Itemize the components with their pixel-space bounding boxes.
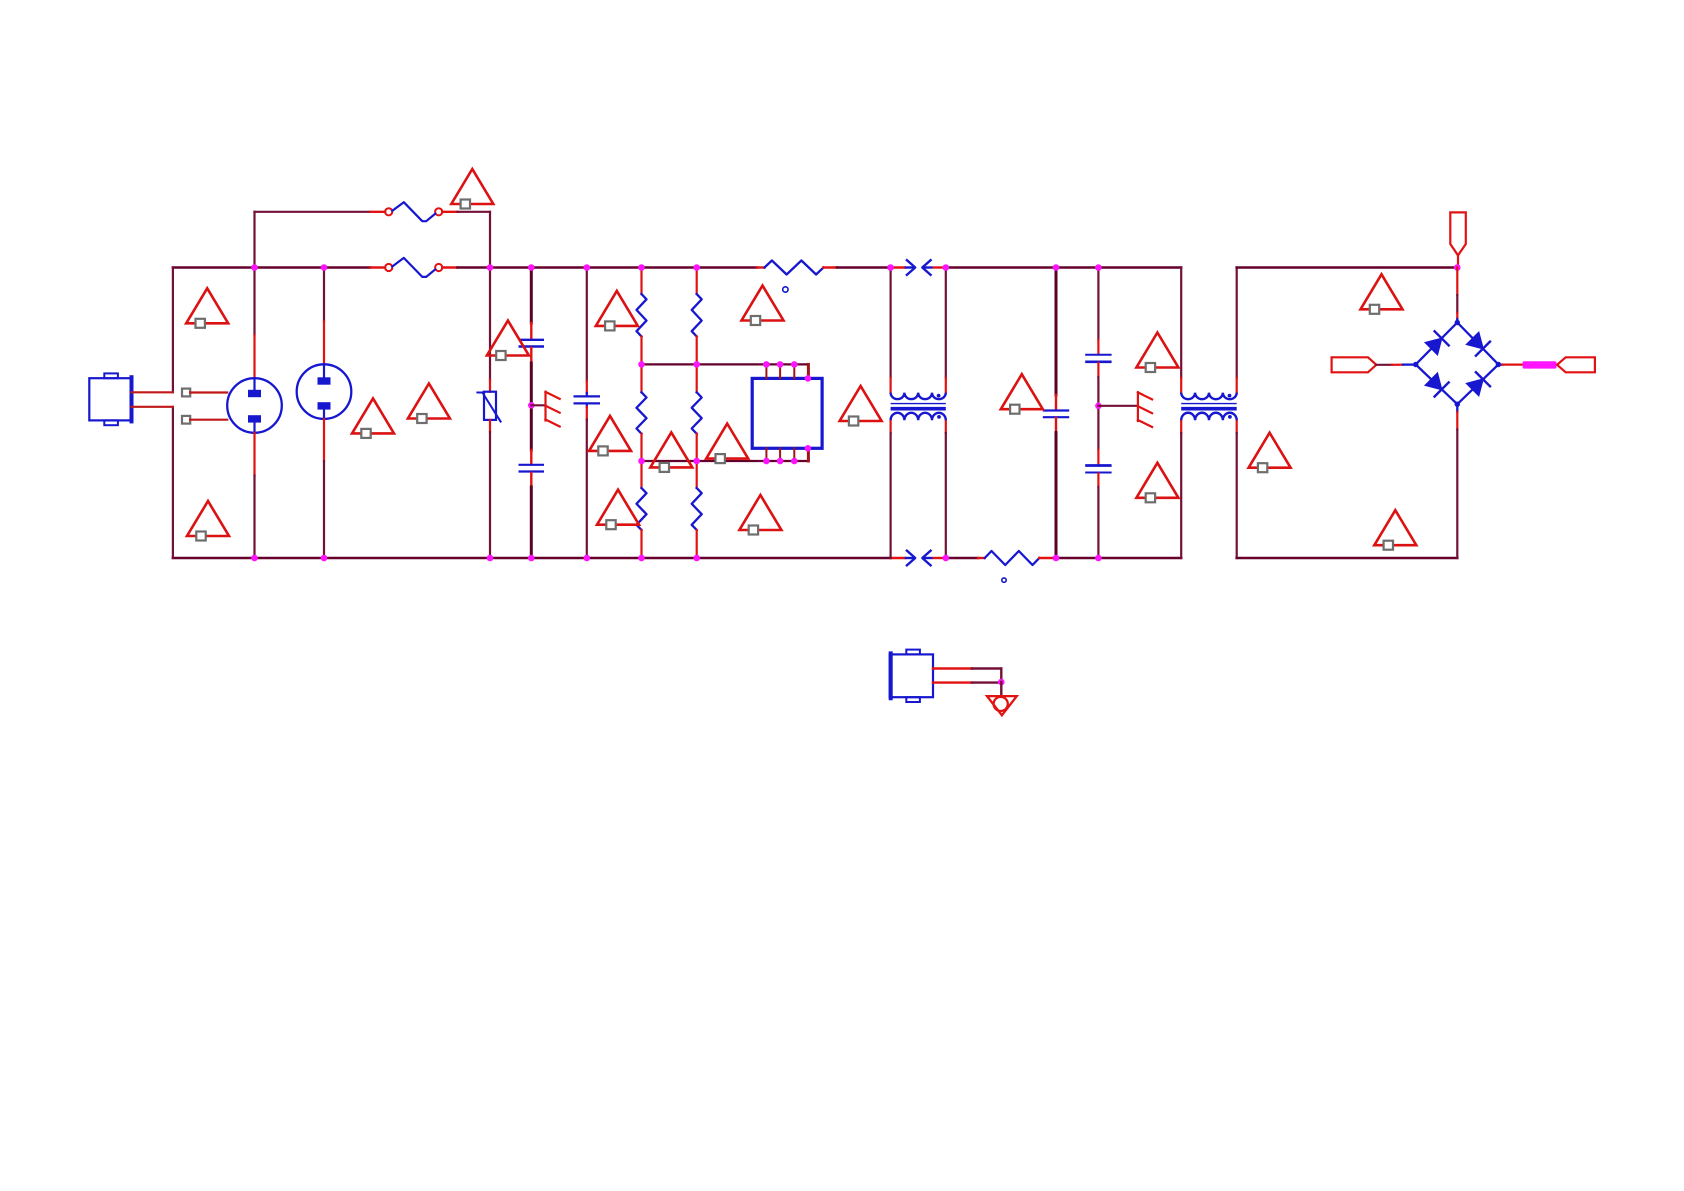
capacitor CX1 xyxy=(519,340,545,347)
warning symbol W13 xyxy=(840,386,882,426)
wire right box bottom bus y=558 xyxy=(1237,557,1458,560)
resistor R5 horizontal on top bus xyxy=(765,261,824,275)
wire red lead T2 right leg upper xyxy=(1236,378,1238,393)
wire bottom bus resistor R6 to T2 left leg corner xyxy=(1054,557,1181,560)
pin marker square upper near J1 xyxy=(182,389,190,397)
wire red lead top of R1b xyxy=(640,364,642,392)
pin 1 of U1 top xyxy=(765,364,767,378)
wire red lead bottom of R2c xyxy=(696,530,698,558)
wire red lead above C4 xyxy=(1097,340,1099,354)
wire red lead out of bridge right node xyxy=(1503,364,1523,366)
wire column x=324 lower segment xyxy=(323,461,325,558)
wire top bus y=267.5 from T1 right leg to T2 left leg corner xyxy=(946,266,1181,269)
wire column x=1056 top segment xyxy=(1055,268,1058,396)
wire red lead above LA2 xyxy=(323,321,325,364)
wire right box top bus y=267.5 xyxy=(1237,266,1458,269)
wire left edge lower segment x=173 xyxy=(172,407,174,558)
wire red lead bridge bottom xyxy=(1456,412,1458,430)
wire red lead below LA1 xyxy=(253,433,255,476)
wire red lead bottom of R2b xyxy=(696,434,698,461)
wire top bus red lead out of fuse F2 xyxy=(442,266,457,268)
wire pin marker to arrester LA1 lower y=419.7 xyxy=(190,419,227,421)
wire column x=1098.4 top segment xyxy=(1097,268,1099,341)
connector J1 AC inlet xyxy=(89,373,131,425)
wire J2 pin1 maroon segment y=668.5 xyxy=(972,667,1001,669)
wire corner down to junction x=1001.3 xyxy=(1000,669,1002,683)
wire fuse branch horizontal right part y=211.8 xyxy=(458,211,491,213)
fuse F1 on bypass branch xyxy=(385,202,442,221)
wire junction to earth symbol xyxy=(1000,682,1002,696)
pin 3 of U1 top xyxy=(793,364,795,378)
wire red lead top of R2c xyxy=(696,461,698,488)
diode D3 left-to-bottom xyxy=(1425,373,1448,396)
wire column x=490 below RV1 xyxy=(489,432,491,558)
wire column x=1056 bottom segment xyxy=(1055,433,1058,559)
wire J1 pin2 to left edge y=406.8 xyxy=(132,406,173,408)
wire red lead bottom of R1b xyxy=(640,434,642,461)
resistor R2b xyxy=(692,392,702,433)
wire column x=586.8 bottom segment xyxy=(586,420,588,559)
pin 2 of U1 top xyxy=(779,364,781,378)
wire red lead below C3 xyxy=(1055,418,1057,433)
wire flag to bridge left node xyxy=(1376,364,1392,366)
diode D2 top-to-right xyxy=(1467,332,1490,355)
wire flag to top bus junction xyxy=(1457,255,1459,267)
warning symbol W6 xyxy=(408,384,450,424)
wire T2 left leg lower x=1181.2 xyxy=(1180,433,1182,558)
flag connector right output xyxy=(1557,357,1595,372)
chassis ground symbol 1 xyxy=(546,392,560,427)
wire J1 pin1 to left edge y=392.3 xyxy=(132,391,173,393)
warning symbol W19 xyxy=(1249,433,1291,473)
arrow connection left-pointing top bus xyxy=(922,260,933,275)
wire red lead right of resistor R6 xyxy=(1039,557,1054,559)
resistor R1a xyxy=(637,294,647,337)
wire column x=586.8 top segment xyxy=(586,268,588,382)
wire red lead below C4 xyxy=(1097,363,1099,377)
wire blue stub bridge bottom xyxy=(1456,404,1458,412)
wire red lead above CX1 xyxy=(530,323,532,339)
connector J2 earth terminal xyxy=(890,650,933,702)
wire red lead top of R1a x=641.5 xyxy=(640,268,642,295)
wire red lead T2 right leg lower xyxy=(1236,420,1238,433)
wire red lead below CX2 xyxy=(530,473,532,487)
wire red lead below RV1 xyxy=(489,420,491,432)
wire column x=531.3 bottom segment xyxy=(530,487,533,558)
warning symbol W5 xyxy=(352,398,394,438)
capacitor CX2 xyxy=(519,465,545,472)
wire red lead above C5 xyxy=(1097,450,1099,465)
warning symbol W17 xyxy=(1136,463,1178,503)
wire red lead bottom of R2a xyxy=(696,337,698,365)
flag connector left AC-in xyxy=(1332,357,1377,372)
wire J2 pin2 maroon segment y=682.6 xyxy=(972,681,1001,683)
warning symbol W4 xyxy=(487,321,529,361)
wire column x=254.5 lower segment xyxy=(253,476,255,559)
wire red lead into bridge left node xyxy=(1392,364,1403,366)
protective earth symbol xyxy=(987,696,1017,715)
wire horizontal y=460.7 to IC bottom pins xyxy=(642,460,809,462)
junction dot chassis tap x=1098.4 xyxy=(1095,403,1102,410)
wire red stub junction to right-arrow top xyxy=(891,266,905,268)
wire J2 pin1 red segment y=668.5 xyxy=(933,667,972,669)
transformer T2 output choke xyxy=(1181,393,1237,421)
diode D4 bottom-to-right xyxy=(1467,372,1490,395)
wire fuse branch horizontal left part y=211.8 xyxy=(255,211,371,213)
fuse F2 on main line xyxy=(385,258,442,277)
wire column x=324 upper segment xyxy=(323,268,325,322)
wire column x=531.3 middle segment xyxy=(530,363,533,450)
arrow connection left-pointing bottom bus xyxy=(922,551,933,566)
wire top bus y=267.5 resistor R5 to T1 left leg junction xyxy=(837,266,891,269)
wire red lead T1 left leg upper xyxy=(889,378,891,393)
wire T1 left leg upper x=890.6 xyxy=(889,268,891,379)
wire red stub left-arrow to T1 right leg junction bottom xyxy=(934,557,946,559)
warning symbol W1 xyxy=(186,288,228,328)
wire horizontal y=364.4 to IC top pins xyxy=(642,363,809,365)
warning symbol W11 xyxy=(706,424,748,464)
wire red lead top of R2b xyxy=(696,364,698,392)
capacitor C4 xyxy=(1085,355,1111,362)
wire red lead below CX1 xyxy=(530,348,532,363)
warning symbol W9 xyxy=(597,490,639,530)
wire red stub T1 left leg to right-arrow bottom xyxy=(891,557,905,559)
wire top bus red lead into fuse F2 xyxy=(371,266,386,268)
transformer T1 common-mode choke xyxy=(891,393,946,421)
capacitor C3 xyxy=(1043,411,1069,418)
pin 7 of U1 bottom xyxy=(793,448,795,461)
resistor R1b xyxy=(637,392,647,433)
junction dot chassis tap x=531.3 xyxy=(528,402,535,409)
wire blue stub bridge right node xyxy=(1498,363,1502,365)
capacitor C5 xyxy=(1085,466,1111,473)
pin 5 of U1 bottom xyxy=(765,448,767,461)
arrow connection right-pointing top bus xyxy=(905,260,916,275)
junction dots on line y=460.7 xyxy=(638,458,700,465)
pin 6 of U1 bottom xyxy=(779,448,781,461)
junction dots top bus xyxy=(251,264,1101,271)
wire red lead T1 right leg lower xyxy=(945,420,947,433)
diode D1 left-to-top xyxy=(1425,331,1448,354)
warning symbol W15 xyxy=(1001,374,1043,414)
wire red lead above RV1 xyxy=(489,380,491,392)
warning symbol W7 xyxy=(596,291,638,331)
ferrite bead magenta on output wire xyxy=(1523,361,1557,368)
warning symbol W3 at fuse F1 xyxy=(451,169,493,209)
wire J2 pin2 red segment y=682.6 xyxy=(933,681,972,683)
wire column x=254.5 upper segment xyxy=(253,268,255,336)
wire red lead into fuse F1 xyxy=(371,211,386,213)
varistor RV1 xyxy=(477,392,500,422)
junction dots U1 bottom pins xyxy=(763,445,811,464)
wire bottom bus T1 right leg to resistor R6 xyxy=(946,557,978,560)
wire red lead above LA1 xyxy=(253,335,255,378)
wire red lead above CX2 xyxy=(530,450,532,464)
wire T1 right leg lower x=945.8 xyxy=(945,433,947,558)
junction dots U1 top pins xyxy=(763,361,811,382)
resistor R2c xyxy=(692,488,702,530)
capacitor CY1 xyxy=(574,393,601,407)
wire maroon to bridge top xyxy=(1456,295,1458,313)
wire top bus y=267.5 from left edge to fuse xyxy=(173,266,371,269)
junction dot earth x=1001.3 xyxy=(998,679,1005,686)
warning symbol W2 xyxy=(187,501,229,541)
gas discharge arrester LA2 xyxy=(297,364,352,419)
IC U1 control module xyxy=(752,378,822,448)
wire column x=531.3 top segment xyxy=(530,268,533,324)
warning symbol W12 xyxy=(742,286,784,326)
wire fuse branch right vertical x=490 xyxy=(489,212,491,268)
wire column x=1098.4 middle segment xyxy=(1097,377,1099,450)
wire red lead top of R2a x=696.7 xyxy=(696,268,698,295)
wire blue stub bridge top xyxy=(1456,319,1458,323)
wire red below junction to bridge xyxy=(1456,268,1458,296)
junction dots bottom bus xyxy=(251,555,1101,562)
wire red lead below CY1 xyxy=(586,407,588,420)
warning symbol W8 xyxy=(589,416,631,456)
bridge diamond wires xyxy=(1416,323,1499,405)
chassis ground symbol 2 xyxy=(1138,392,1152,427)
wire fuse branch left vertical x=254.5 xyxy=(253,212,255,268)
wire T2 left leg upper x=1181.2 xyxy=(1180,268,1182,379)
wire red lead bridge top xyxy=(1456,313,1458,319)
wire T1 left leg lower x=890.6 xyxy=(889,433,891,558)
wire red lead bottom of R1c xyxy=(640,530,642,558)
wire red lead left of resistor R5 xyxy=(757,266,765,268)
warning symbol W10 xyxy=(650,432,692,472)
wire red lead above CY1 xyxy=(586,381,588,393)
wire red lead above C3 xyxy=(1055,395,1057,410)
gas discharge arrester LA1 xyxy=(227,378,282,433)
wire red lead T2 left leg lower xyxy=(1180,420,1182,433)
junction dot top flag x=1457.3 xyxy=(1454,264,1461,271)
wire red lead below LA2 xyxy=(323,419,325,461)
bridge node dots xyxy=(1413,320,1501,407)
wire red lead T1 left leg lower xyxy=(889,420,891,433)
wire bottom bus y=558 from left edge to T1 left leg xyxy=(173,557,891,560)
pin 4 of U1 right top wrap xyxy=(807,364,810,378)
wire stub to chassis ground 1 xyxy=(531,404,545,406)
wire top bus y=267.5 from fuse to resistor R5 xyxy=(458,266,758,269)
wire red stub left-arrow to T1 right leg junction xyxy=(934,266,946,268)
wire red lead out of fuse F1 xyxy=(442,211,457,213)
resistor R1c xyxy=(637,488,647,530)
wire pin marker to arrester LA1 upper y=392.5 xyxy=(190,391,227,393)
resistor R2a xyxy=(692,294,702,337)
wire blue stub bridge left node xyxy=(1403,363,1416,365)
junction dots on line y=364.4 xyxy=(638,361,700,368)
pin 8 of U1 right bottom wrap xyxy=(807,448,810,461)
warning symbol W18 xyxy=(1361,274,1403,314)
wire T2 right leg upper x=1236.7 xyxy=(1236,268,1238,379)
wire red lead right of resistor R5 xyxy=(824,266,838,268)
arrow connection right-pointing bottom bus xyxy=(905,551,916,566)
warning symbol W20 xyxy=(1374,510,1416,550)
warning symbol W16 xyxy=(1136,333,1178,373)
node marker circle below resistor R5 xyxy=(783,287,788,292)
flag connector top output xyxy=(1450,212,1466,255)
wire red lead left of resistor R6 xyxy=(978,557,985,559)
resistor R6 horizontal on bottom bus xyxy=(985,551,1040,565)
node marker circle below resistor R6 xyxy=(1002,578,1006,582)
wire red lead T1 right leg upper xyxy=(945,378,947,393)
wire right box right edge to bottom bus xyxy=(1456,430,1458,559)
wire T1 right leg upper x=945.8 xyxy=(945,268,947,379)
wire red lead bottom of R1a xyxy=(640,337,642,365)
wire T2 right leg lower x=1236.7 xyxy=(1236,433,1238,558)
wire red lead below C5 xyxy=(1097,474,1099,488)
warning symbol W14 xyxy=(739,495,781,535)
wire red lead top of R1c xyxy=(640,461,642,488)
wire left edge upper segment x=173 xyxy=(172,268,174,393)
wire column x=490 above RV1 xyxy=(489,268,491,381)
wire column x=1098.4 bottom segment xyxy=(1097,487,1099,558)
pin marker square lower near J1 xyxy=(182,416,190,424)
wire red lead T2 left leg upper xyxy=(1180,378,1182,393)
wire stub to chassis ground 2 xyxy=(1098,405,1138,407)
